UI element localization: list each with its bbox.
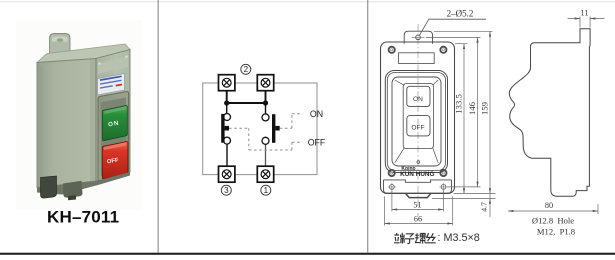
mech link dashed: OFF button linkage [229, 128, 303, 150]
flange hole right [439, 183, 447, 191]
svg-text:ON: ON [310, 109, 323, 119]
mounting tab top [50, 34, 71, 59]
button bezel recess [98, 92, 129, 181]
mech link dashed: ON button linkage [280, 114, 303, 128]
ext line body bottom [454, 193, 496, 195]
side view [509, 29, 590, 197]
svg-text:OFF: OFF [411, 125, 424, 132]
svg-text:KH–7011: KH–7011 [47, 208, 119, 227]
tab hole crosshair [416, 35, 421, 40]
ext line hole center [426, 36, 481, 38]
svg-text:3: 3 [224, 186, 229, 195]
wire: junction to OFF contact top [226, 103, 228, 113]
wire: OFF contact bottom to terminal 3 [226, 144, 228, 166]
switch OFF (NC) contact circles [224, 114, 231, 145]
page top rule [0, 1, 615, 3]
flange hole left [388, 183, 396, 191]
front view centerline [417, 24, 419, 216]
terminal square bottom-left [219, 166, 235, 182]
ON button front view [407, 86, 430, 106]
wire: ON contact bottom to terminal 1 [265, 145, 267, 166]
svg-text:4.7: 4.7 [480, 202, 489, 212]
product code KH-7011 [47, 208, 119, 227]
bottom mounting tab front view [405, 193, 431, 197]
dimension arrowheads front view [385, 31, 492, 224]
switch OFF (NC) moving bar [221, 114, 229, 143]
svg-text:159: 159 [480, 101, 490, 115]
screw bottom-right [440, 170, 446, 176]
red OFF button [102, 142, 128, 179]
ext lines 66 [385, 197, 453, 226]
side profile outline [509, 29, 590, 197]
svg-text:ON: ON [413, 96, 423, 103]
ext line tab top [434, 30, 493, 32]
svg-text:133.5: 133.5 [454, 94, 464, 114]
enclosure front face [96, 50, 130, 182]
dim 11 graphics [568, 17, 605, 28]
junction dot left [224, 100, 229, 105]
bezel outer [385, 71, 447, 173]
ext line flange holes [447, 186, 481, 188]
enclosure left side face [37, 59, 96, 188]
svg-text:Ø12.8 Hole: Ø12.8 Hole [532, 216, 574, 226]
button well floor [403, 84, 433, 149]
panel divider 1 [158, 0, 159, 253]
bottom flange inset [384, 180, 452, 193]
dimension graphics [385, 31, 496, 225]
terminal node 2 label [241, 64, 251, 74]
switch ON (NO) moving bar [272, 114, 280, 143]
well corner chamfer lines [395, 80, 438, 163]
terminal square top-left [219, 75, 235, 91]
OFF button front view [407, 116, 430, 136]
photo soft backdrop [16, 20, 142, 210]
ext line tab bottom [432, 198, 496, 200]
svg-text:2: 2 [244, 65, 249, 74]
wire: junction to ON contact top [265, 103, 267, 114]
svg-text:2–Ø5.2: 2–Ø5.2 [447, 9, 474, 19]
dim line 51 [392, 209, 444, 211]
svg-text:11: 11 [581, 9, 589, 18]
terminal screw note hanzi si [426, 233, 436, 243]
svg-text:146: 146 [467, 101, 477, 115]
dim line 66 [385, 223, 453, 225]
nameplate label [98, 74, 125, 96]
svg-text:1: 1 [264, 186, 269, 195]
bezel edge line [387, 73, 445, 171]
svg-text:KUN HUNG: KUN HUNG [400, 171, 434, 178]
terminal screw note hanzi luo [415, 233, 426, 243]
wire: top-right square to junction [265, 91, 267, 104]
screw bottom-left [389, 170, 395, 176]
face crease edge [95, 59, 97, 182]
svg-text:M12, P1.8: M12, P1.8 [537, 227, 575, 237]
terminal screw note hanzi zi [405, 234, 414, 244]
terminal square top-right [257, 75, 273, 91]
enclosure bottom shadow [37, 172, 130, 195]
wire: junction bus horizontal [227, 102, 266, 104]
nameplate rectangle [399, 53, 435, 64]
enclosure top face [37, 44, 130, 63]
svg-text:51: 51 [413, 201, 421, 210]
leader line to hole note [420, 19, 487, 35]
page bottom rule [0, 253, 615, 255]
svg-text:: M3.5×8: : M3.5×8 [438, 232, 480, 244]
screw top-left [389, 47, 395, 53]
front corner screws [98, 55, 128, 65]
svg-text:80: 80 [545, 201, 553, 210]
junction dot right [263, 100, 268, 105]
terminal node 1 label [261, 185, 271, 195]
enclosure outline rectangle [203, 83, 317, 175]
terminal square bottom-right [257, 166, 273, 182]
dim line 146 [477, 37, 479, 187]
screw top-right [440, 47, 446, 53]
bottom mounting tab [41, 176, 83, 200]
wire: top-left square to junction [226, 91, 228, 104]
green ON button [103, 106, 128, 141]
body outline front view [381, 42, 455, 194]
terminal screw note hanzi duan [394, 233, 405, 244]
terminal node 3 label [221, 185, 231, 195]
front view top mounting tab [404, 31, 432, 44]
dim line 159 with 4.7 foot [489, 31, 491, 217]
dim line 133.5 [463, 44, 465, 194]
svg-text:OFF: OFF [308, 137, 326, 147]
well bottom screw [417, 161, 420, 164]
ext lines 51 [392, 191, 444, 212]
panel divider 2 [367, 0, 368, 253]
dim 80 graphics [508, 204, 598, 214]
switch ON (NO) contact circles [262, 114, 269, 144]
bezel well opening [392, 77, 441, 166]
svg-text:66: 66 [414, 215, 422, 224]
ext line body top [455, 43, 468, 45]
